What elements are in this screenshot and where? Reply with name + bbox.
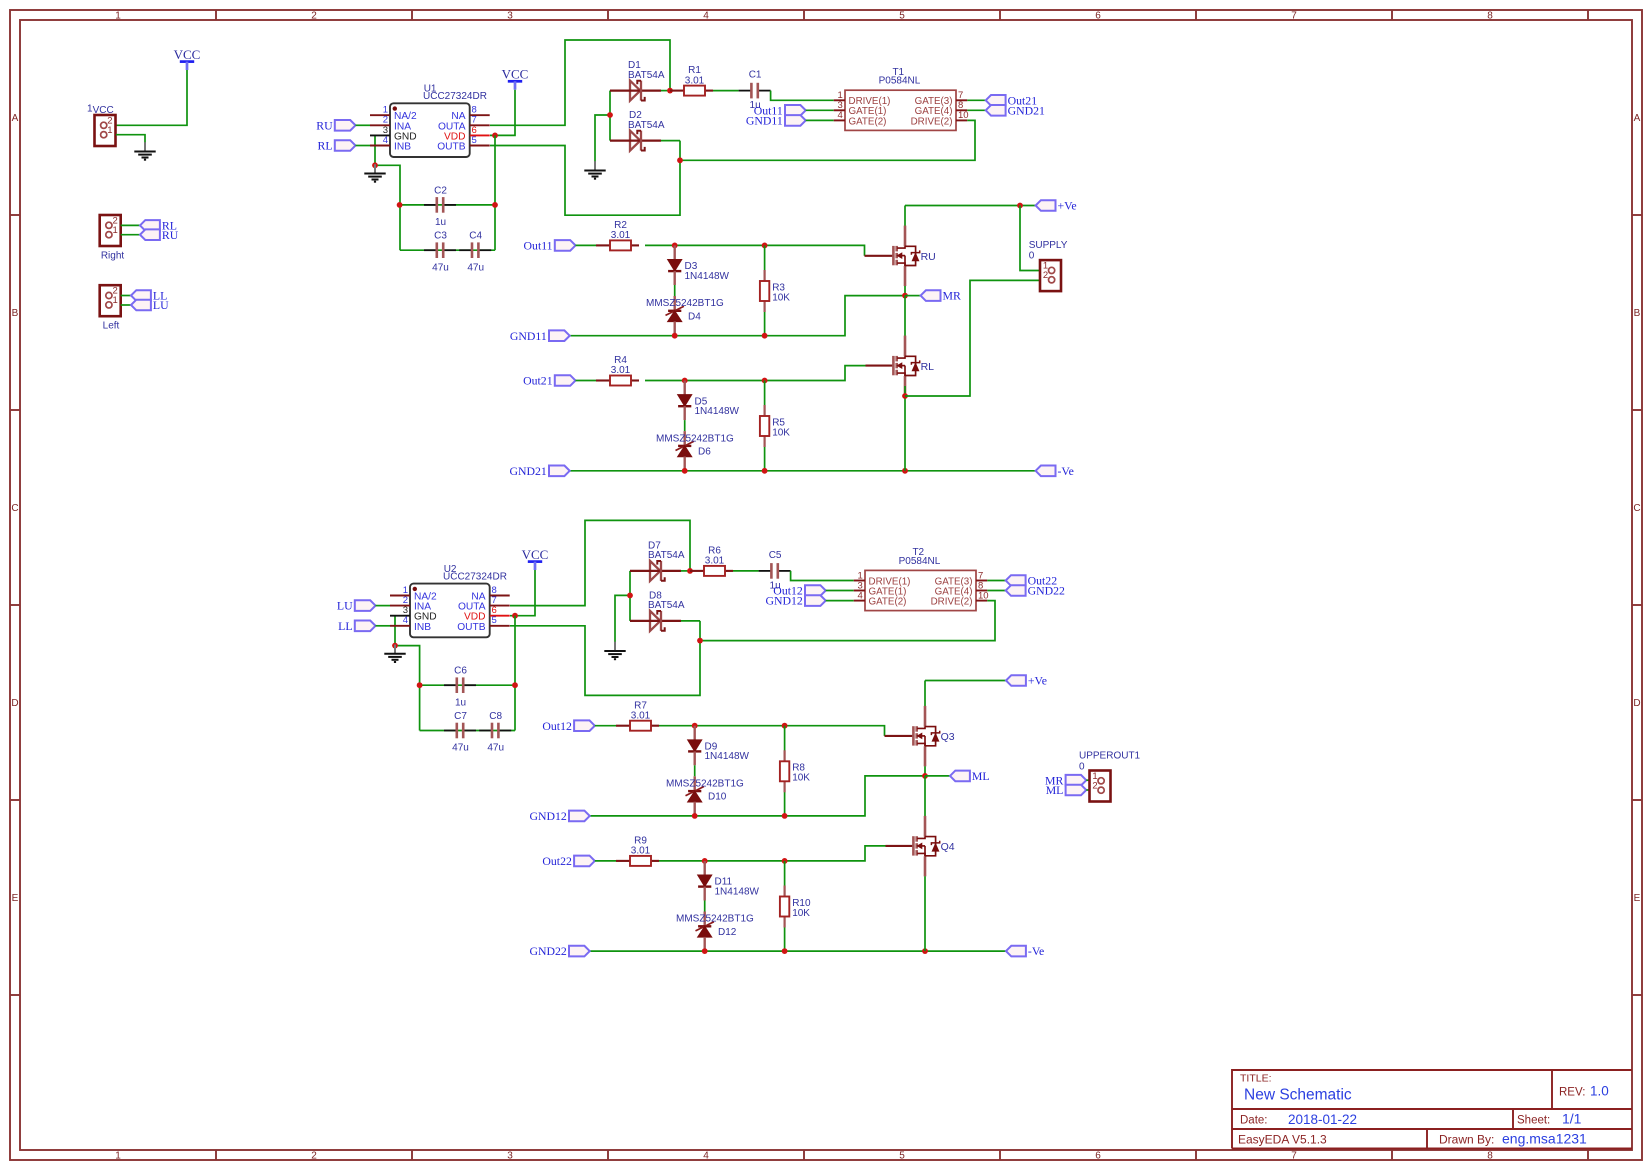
svg-text:A: A <box>12 113 19 124</box>
connector Right <box>100 215 121 246</box>
svg-text:RU: RU <box>921 251 936 263</box>
diode D7 BAT54A <box>630 561 681 581</box>
svg-text:P0584NL: P0584NL <box>899 556 941 567</box>
net flag LL <box>131 289 167 303</box>
net flag GND22 <box>1006 584 1065 598</box>
svg-text:4: 4 <box>703 1150 709 1161</box>
svg-text:OUTB: OUTB <box>437 142 466 153</box>
transistor Q4 MOSFET <box>913 816 954 877</box>
net flag Out12 (gate drive row) <box>542 719 594 733</box>
svg-text:1N4148W: 1N4148W <box>685 271 730 282</box>
svg-text:D: D <box>1633 698 1640 709</box>
resistor R9 3.01 <box>616 836 659 866</box>
junction D2 cathode / pin10 return <box>677 157 683 163</box>
svg-text:MMSZ5242BT1G: MMSZ5242BT1G <box>646 298 724 309</box>
wire Out22 to R9 <box>595 860 616 862</box>
wire R4 to RL gate <box>645 366 866 381</box>
svg-text:LU: LU <box>153 298 169 312</box>
resistor R6 3.01 <box>690 546 733 576</box>
svg-text:E: E <box>1634 893 1641 904</box>
wire R7 to Q3 gate <box>659 726 885 736</box>
svg-text:GND21: GND21 <box>1008 103 1045 117</box>
svg-text:2: 2 <box>1043 270 1048 281</box>
svg-text:Q3: Q3 <box>941 731 955 743</box>
power flag VCC (U1) <box>502 67 529 90</box>
net flag Out12 (to T2 GATE(1)) <box>773 584 825 598</box>
net flag ML <box>950 769 990 783</box>
wire GND11 row <box>570 296 905 336</box>
ground <box>134 142 155 160</box>
wire C5 to T2 DRIVE(1) pin 1 <box>791 571 854 581</box>
svg-text:3.01: 3.01 <box>631 710 651 721</box>
svg-text:2: 2 <box>311 1150 317 1161</box>
diode D10 MMSZ5242BT1G zener <box>694 765 696 776</box>
svg-text:0: 0 <box>1079 761 1085 772</box>
svg-text:ML: ML <box>972 769 990 783</box>
capacitor C8 47u <box>479 711 511 754</box>
svg-text:RU: RU <box>316 118 333 132</box>
svg-text:New Schematic: New Schematic <box>1244 1087 1352 1104</box>
net flag Out21 (gate drive row) <box>523 374 575 388</box>
svg-text:GATE(2): GATE(2) <box>869 597 907 608</box>
net flag GND12 (row) <box>529 809 589 823</box>
op-amp U1 UCC27324DR gate driver <box>370 84 490 157</box>
wire D7/D8 anode rail to ground <box>629 571 631 621</box>
ground (U2) <box>384 645 405 663</box>
svg-text:3: 3 <box>507 10 513 21</box>
svg-text:VCC: VCC <box>174 47 201 62</box>
svg-text:DRIVE(2): DRIVE(2) <box>911 116 953 127</box>
wire D1 cathode to R1 node <box>661 90 670 92</box>
net flag GND11 (row) <box>510 329 570 343</box>
junction D9 top <box>692 723 698 729</box>
transformer T1 P0584NL <box>834 67 969 131</box>
svg-text:3: 3 <box>507 1150 513 1161</box>
wire Right pin 1 to RU flag <box>121 234 140 236</box>
diode D6 MMSZ5242BT1G zener <box>684 420 686 431</box>
diode D9 1N4148W <box>688 726 701 766</box>
wire C2 row <box>400 204 495 206</box>
svg-text:10K: 10K <box>792 773 810 784</box>
svg-text:Out22: Out22 <box>542 854 572 868</box>
capacitor C3 47u <box>424 231 456 274</box>
svg-text:GND22: GND22 <box>1028 584 1065 598</box>
wire C6 row <box>420 684 515 686</box>
junction RL source / SUPPLY pin 2 tap <box>902 393 908 399</box>
svg-text:C5: C5 <box>769 550 782 561</box>
wire RU flag to U1 pin 2 <box>356 124 371 126</box>
svg-text:2: 2 <box>311 10 317 21</box>
wire T2 GATE(4) pin 8 to GND22 flag <box>987 590 1005 592</box>
net flag MR <box>921 289 961 303</box>
svg-text:1u: 1u <box>455 697 466 708</box>
diode D3 1N4148W <box>668 245 681 285</box>
wire +Ve row <box>905 205 1036 207</box>
net flag MR (to UPPEROUT1) <box>1045 773 1086 787</box>
wire Out21 to R4 <box>576 380 597 382</box>
svg-text:C8: C8 <box>489 711 502 722</box>
wire Q3 gate lead <box>885 735 914 737</box>
junction RL source on -Ve row <box>902 468 908 474</box>
junction R10 top <box>782 858 788 864</box>
svg-text:RU: RU <box>162 228 179 242</box>
junction R8 bottom <box>782 813 788 819</box>
wire GND12 flag to T2 pin 4 <box>826 600 854 602</box>
diode D1 BAT54A <box>610 81 661 101</box>
capacitor C7 47u <box>444 711 476 754</box>
transistor RU MOSFET <box>893 226 935 287</box>
svg-text:1: 1 <box>115 10 121 21</box>
svg-text:3.01: 3.01 <box>611 230 631 241</box>
svg-text:RL: RL <box>921 361 935 373</box>
resistor R8 10K <box>784 726 786 762</box>
svg-text:C2: C2 <box>434 185 447 196</box>
svg-text:+Ve: +Ve <box>1058 199 1077 213</box>
svg-text:1.0: 1.0 <box>1590 1083 1609 1098</box>
svg-text:DRIVE(2): DRIVE(2) <box>931 597 973 608</box>
wire U2 OUTB loop to D8 cathode <box>510 621 700 696</box>
resistor R3 10K <box>764 245 766 281</box>
svg-text:TITLE:: TITLE: <box>1240 1073 1272 1085</box>
svg-text:C: C <box>11 503 18 514</box>
net flag GND22 (row) <box>529 944 589 958</box>
junction U2 gnd node <box>392 643 398 649</box>
net flag Out21 <box>986 93 1037 107</box>
junction D1/D2 anode rail <box>607 112 613 118</box>
svg-text:RL: RL <box>318 139 333 153</box>
wire SUPPLY pin 2 to RL source <box>905 280 1045 396</box>
svg-text:3.01: 3.01 <box>631 846 651 857</box>
net flag GND21 <box>986 103 1045 117</box>
svg-text:5: 5 <box>899 10 905 21</box>
wire U2 GND pin 3 to ground and C6/C7 left rail <box>395 616 420 731</box>
svg-text:1N4148W: 1N4148W <box>695 406 740 417</box>
svg-text:C3: C3 <box>434 231 447 242</box>
svg-text:D4: D4 <box>688 311 701 322</box>
capacitor C6 1u <box>444 666 476 709</box>
junction D3 top <box>672 243 678 249</box>
junction C2 right <box>492 202 498 208</box>
svg-text:5: 5 <box>899 1150 905 1161</box>
net flag LU <box>131 298 169 312</box>
junction MR node <box>902 293 908 299</box>
wire R1 to C1 <box>713 90 739 92</box>
net flag RU (U1 input) <box>316 118 355 132</box>
junction D4 bottom <box>672 333 678 339</box>
svg-text:C1: C1 <box>749 70 762 81</box>
svg-text:D10: D10 <box>708 792 727 803</box>
svg-text:GND22: GND22 <box>529 944 566 958</box>
title block <box>1232 1070 1632 1149</box>
svg-text:4: 4 <box>383 135 388 146</box>
svg-text:VCC: VCC <box>502 67 529 82</box>
svg-text:+Ve: +Ve <box>1028 674 1047 688</box>
svg-text:0: 0 <box>1029 251 1035 262</box>
junction D7/D8 anode rail <box>627 593 633 599</box>
svg-text:3.01: 3.01 <box>611 365 631 376</box>
net flag GND21 (row) <box>509 464 569 478</box>
svg-text:B: B <box>1634 308 1641 319</box>
wire T2 DRIVE(2) pin 10 return to D8 cathode <box>700 601 995 641</box>
svg-text:1: 1 <box>113 295 118 306</box>
wire RU source to MR node <box>904 286 906 296</box>
svg-text:4: 4 <box>703 10 709 21</box>
svg-text:Q4: Q4 <box>941 841 955 853</box>
wire GND12 row <box>590 776 925 816</box>
junction U1 gnd node <box>372 162 378 168</box>
connector UPPEROUT1 <box>1090 771 1111 802</box>
wire RL gate lead <box>866 365 894 367</box>
svg-text:BAT54A: BAT54A <box>628 70 665 81</box>
svg-text:8: 8 <box>1487 10 1493 21</box>
junction U2 VDD node <box>512 613 518 619</box>
svg-text:EasyEDA V5.1.3: EasyEDA V5.1.3 <box>1238 1132 1327 1146</box>
diode D4 MMSZ5242BT1G zener <box>674 285 676 296</box>
wire +Ve to SUPPLY pin 1 <box>1020 206 1045 271</box>
svg-text:Out12: Out12 <box>542 719 572 733</box>
wire RL source <box>904 386 906 471</box>
resistor R10 10K <box>784 861 786 897</box>
wire C3/C4 row <box>400 249 495 251</box>
junction D12 bottom <box>702 948 708 954</box>
resistor R7 3.01 <box>616 700 659 730</box>
svg-text:47u: 47u <box>487 743 504 754</box>
svg-text:7: 7 <box>1291 10 1297 21</box>
junction R8 top <box>782 723 788 729</box>
junction R3 top <box>762 243 768 249</box>
wire Out12 flag to T2 pin 3 <box>826 590 854 592</box>
svg-text:C: C <box>1633 503 1640 514</box>
connector SUPPLY <box>1040 260 1061 291</box>
wire T1 GATE(3) pin 7 to Out21 flag <box>967 99 985 101</box>
wire VCC to U1 VDD pin 6 <box>490 90 515 136</box>
svg-text:UCC27324DR: UCC27324DR <box>423 91 487 102</box>
svg-text:10K: 10K <box>772 292 790 303</box>
net flag GND12 (to T2 GATE(2)) <box>765 594 825 608</box>
svg-text:1: 1 <box>107 125 112 136</box>
connector VCC (P1) <box>95 115 116 146</box>
svg-text:GND12: GND12 <box>529 809 566 823</box>
net flag RU <box>140 228 179 242</box>
junction D1 cathode / R1 <box>667 88 673 94</box>
junction +Ve supply tap <box>1017 203 1023 209</box>
svg-text:Date:: Date: <box>1240 1114 1268 1126</box>
svg-text:4: 4 <box>838 110 843 121</box>
junction R5 top <box>762 378 768 384</box>
svg-text:1N4148W: 1N4148W <box>715 886 760 897</box>
svg-text:P0584NL: P0584NL <box>879 76 921 87</box>
wire GND22 / -Ve row <box>590 950 1006 952</box>
svg-text:SUPPLY: SUPPLY <box>1029 240 1068 251</box>
svg-text:LU: LU <box>337 599 353 613</box>
net flag RL (U1 input) <box>318 139 356 153</box>
svg-text:VCC: VCC <box>522 547 549 562</box>
svg-text:3.01: 3.01 <box>685 75 705 86</box>
svg-text:GATE(2): GATE(2) <box>849 116 887 127</box>
svg-text:47u: 47u <box>467 262 484 273</box>
wire R2 to RU gate <box>645 245 865 255</box>
junction C6 left <box>417 682 423 688</box>
wire C1 to T1 DRIVE(1) pin 1 <box>771 91 834 101</box>
svg-text:2018-01-22: 2018-01-22 <box>1288 1112 1357 1127</box>
wire VCC flag to connector P1 pin 2 <box>116 70 187 125</box>
wire LU flag to U2 pin 2 <box>376 605 391 607</box>
svg-text:1: 1 <box>113 225 118 236</box>
wire MR flag to UPPEROUT1 pin 1 <box>1086 779 1089 781</box>
wire D7 cathode to R6 node <box>681 570 690 572</box>
connector Left <box>100 285 121 316</box>
capacitor C4 47u <box>459 231 491 274</box>
svg-text:D: D <box>11 698 18 709</box>
svg-text:C4: C4 <box>469 231 482 242</box>
svg-text:VCC: VCC <box>93 105 114 116</box>
resistor R1 3.01 <box>670 65 713 95</box>
svg-text:Left: Left <box>103 321 120 332</box>
svg-text:OUTB: OUTB <box>457 622 486 633</box>
svg-text:1N4148W: 1N4148W <box>705 751 750 762</box>
junction R10 bottom <box>782 948 788 954</box>
resistor R4 3.01 <box>596 355 639 385</box>
svg-text:4: 4 <box>858 590 863 601</box>
svg-text:8: 8 <box>1487 1150 1493 1161</box>
wire MR node to MR flag <box>905 295 921 297</box>
wire Q4 source <box>924 876 926 951</box>
net flag LU (U2 input) <box>337 599 376 613</box>
wire Out11 to R2 <box>576 244 597 246</box>
wire RU gate lead <box>865 255 894 257</box>
ground (U1) <box>364 164 385 182</box>
wire VCC to U2 VDD pin 6 <box>510 570 535 616</box>
diode D8 BAT54A <box>630 611 681 631</box>
ground (D7/D8) <box>604 642 625 660</box>
svg-text:eng.msa1231: eng.msa1231 <box>1502 1131 1587 1147</box>
net flag Out11 (to T1 GATE(1)) <box>754 103 806 117</box>
power flag VCC (U2) <box>522 547 549 570</box>
wire Q3 source to ML node <box>924 766 926 776</box>
wire GND11 flag to T1 pin 4 <box>806 119 834 121</box>
svg-text:Right: Right <box>101 251 125 262</box>
svg-text:6: 6 <box>1095 1150 1101 1161</box>
svg-text:GND21: GND21 <box>509 464 546 478</box>
svg-text:7: 7 <box>1291 1150 1297 1161</box>
wire MR node to RL drain <box>904 296 906 336</box>
diode D11 1N4148W <box>698 861 711 901</box>
junction D5 top <box>682 378 688 384</box>
svg-text:A: A <box>1634 113 1641 124</box>
net flag LL (U2 input) <box>338 619 375 633</box>
wire Q4 gate lead <box>886 845 914 847</box>
junction D11 top <box>702 858 708 864</box>
svg-text:-Ve: -Ve <box>1058 464 1074 478</box>
svg-text:1/1: 1/1 <box>1562 1111 1582 1127</box>
svg-text:GND12: GND12 <box>765 594 802 608</box>
wire C7/C8 row <box>420 730 515 732</box>
power flag VCC (top-left) <box>174 47 201 70</box>
wire U2 VDD rail down to C6/C8 right <box>514 616 516 731</box>
junction R5 bottom <box>762 468 768 474</box>
wire D2 cathode link <box>661 140 680 142</box>
wire ML node to ML flag <box>925 775 950 777</box>
svg-text:10: 10 <box>958 110 969 121</box>
svg-text:BAT54A: BAT54A <box>648 600 685 611</box>
svg-text:10: 10 <box>978 590 989 601</box>
junction D8 cathode / pin10 return <box>697 638 703 644</box>
svg-text:UCC27324DR: UCC27324DR <box>443 571 507 582</box>
transformer T2 P0584NL <box>854 547 989 611</box>
svg-text:MMSZ5242BT1G: MMSZ5242BT1G <box>656 433 734 444</box>
net flag Out22 (gate drive row) <box>542 854 594 868</box>
wire ML node to Q4 drain <box>924 776 926 816</box>
diode D5 1N4148W <box>678 381 691 421</box>
svg-text:10K: 10K <box>772 427 790 438</box>
transistor RL MOSFET <box>893 336 934 397</box>
junction ML node <box>922 773 928 779</box>
svg-text:LL: LL <box>338 619 352 633</box>
svg-text:Sheet:: Sheet: <box>1517 1114 1550 1126</box>
resistor R5 10K <box>764 381 766 417</box>
svg-text:C7: C7 <box>454 711 467 722</box>
wire Left pin 1 to LU flag <box>121 304 131 306</box>
svg-text:REV:: REV: <box>1559 1086 1585 1098</box>
wire OUTA loop to D1 cathode / R1 <box>490 40 670 125</box>
net flag RL <box>140 219 177 233</box>
op-amp U2 UCC27324DR gate driver <box>390 564 510 637</box>
net flag ML (to UPPEROUT1) <box>1046 783 1087 797</box>
capacitor C5 1u <box>759 550 791 592</box>
capacitor C2 1u <box>424 185 456 228</box>
wire RU drain <box>904 206 906 227</box>
svg-text:1: 1 <box>115 1150 121 1161</box>
wire Out11 flag to T1 pin 3 <box>806 109 834 111</box>
net flag -Ve (lower) <box>1006 944 1044 958</box>
wire RL flag to U1 pin 4 <box>356 145 371 147</box>
svg-text:GND11: GND11 <box>746 114 783 128</box>
junction Q4 source on -Ve row <box>922 948 928 954</box>
svg-text:D12: D12 <box>718 927 737 938</box>
svg-text:1u: 1u <box>435 217 446 228</box>
resistor R2 3.01 <box>596 220 639 250</box>
svg-text:C6: C6 <box>454 666 467 677</box>
wire T1 GATE(4) pin 8 to GND21 flag <box>967 109 985 111</box>
svg-text:E: E <box>12 893 19 904</box>
wire OUTB loop to D2 cathode <box>490 141 680 216</box>
svg-text:3.01: 3.01 <box>705 556 725 567</box>
wire Left pin 2 to LL flag <box>121 295 131 297</box>
svg-text:MMSZ5242BT1G: MMSZ5242BT1G <box>676 914 754 925</box>
svg-text:10K: 10K <box>792 908 810 919</box>
wire GND21 / -Ve row <box>570 470 1036 472</box>
junction VDD node <box>492 133 498 139</box>
junction D7 cathode / R6 <box>687 568 693 574</box>
wire Out12 to R7 <box>595 725 616 727</box>
junction C6 right <box>512 682 518 688</box>
junction R3 bottom <box>762 333 768 339</box>
junction C2 left <box>397 202 403 208</box>
net flag +Ve <box>1036 199 1077 213</box>
wire P1 pin 1 to ground <box>116 135 145 144</box>
wire T2 GATE(3) pin 7 to Out22 flag <box>987 580 1005 582</box>
svg-text:6: 6 <box>1095 10 1101 21</box>
wire Q3 drain <box>924 681 926 707</box>
svg-text:4: 4 <box>403 615 408 626</box>
wire VDD rail down to C2/C4 right <box>494 135 496 250</box>
svg-text:INB: INB <box>394 142 411 153</box>
svg-text:2: 2 <box>1092 780 1097 791</box>
diode D2 BAT54A <box>610 131 661 151</box>
svg-text:Out11: Out11 <box>524 239 553 253</box>
junction D10 bottom <box>692 813 698 819</box>
svg-text:INB: INB <box>414 622 431 633</box>
